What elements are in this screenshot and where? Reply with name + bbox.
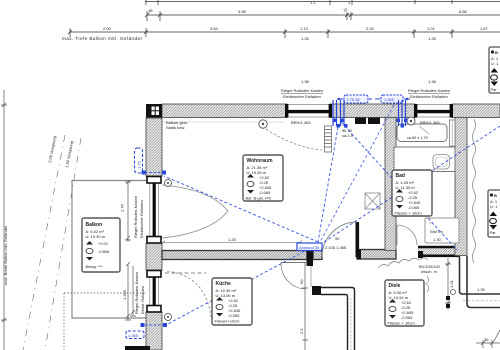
svg-text:1.30: 1.30 (477, 287, 486, 292)
hinge circle lower window (165, 314, 172, 321)
svg-text:Riegel Rolladen-Kasten: Riegel Rolladen-Kasten (134, 272, 139, 314)
wall right of Bad vertical (455, 118, 467, 256)
svg-text:BRH/1.365: BRH/1.365 (291, 120, 311, 125)
blue label bottom left (126, 331, 144, 339)
wall Wohnraum/Bad vertical (385, 118, 396, 251)
window1 swing dashed (266, 129, 322, 150)
hinge circle bad door (451, 290, 456, 295)
room box Diele (385, 280, 424, 326)
blue leader L3 (324, 126, 500, 242)
left exterior wall (mid segment between windows) (146, 243, 162, 270)
svg-text:2.24: 2.24 (366, 26, 375, 31)
svg-text:Elektrischer Rolladen: Elektrischer Rolladen (410, 94, 448, 99)
lower window dim lines (125, 262, 136, 320)
blue leader L4 (164, 176, 318, 242)
svg-text:Diele: Diele (389, 283, 401, 289)
room box Bad (392, 170, 432, 216)
balcony outline (72, 181, 148, 319)
left exterior wall (upper segment) (146, 118, 162, 176)
selected blue label B (window2) (375, 95, 410, 103)
svg-text:Elektrischer Rolladen: Elektrischer Rolladen (283, 94, 321, 99)
blue leader L6 (341, 122, 457, 250)
svg-text:1.365: 1.365 (384, 97, 394, 102)
hidden edge dashed in Kueche (165, 272, 206, 274)
svg-text:8.86: 8.86 (459, 9, 468, 14)
svg-text:90: 90 (299, 279, 304, 284)
svg-text:2.135 1.365: 2.135 1.365 (325, 245, 347, 250)
svg-text:2.5: 2.5 (299, 328, 304, 334)
room box Balkon (82, 218, 120, 272)
svg-text:U: 1: U: 1 (490, 204, 498, 209)
svg-text:B: B (495, 50, 498, 55)
slanted leader A with note (23, 135, 65, 350)
left exterior wall (lower segment) (146, 312, 162, 350)
french door arcs at balcony door (162, 185, 228, 238)
blue selected sill line upper (142, 171, 167, 175)
blue grips window1 (333, 119, 348, 128)
slanted leader B with note (45, 138, 81, 350)
svg-text:-0.065: -0.065 (259, 190, 271, 195)
svg-text:1.365: 1.365 (122, 289, 127, 300)
svg-text:misch. m: misch. m (421, 269, 438, 274)
left page dimension line (1, 90, 7, 350)
hinge circle balcony door (165, 180, 172, 187)
blue selected dim label (hub) (297, 243, 322, 251)
svg-text:+0.01: +0.01 (98, 241, 109, 246)
shaft square with X (365, 193, 380, 209)
blue leader L2 (320, 105, 394, 242)
blue selected verticals window2 (399, 100, 406, 126)
svg-text:Riegel Rolladen-Kasten: Riegel Rolladen-Kasten (281, 88, 323, 93)
svg-text:max. Tiefe Balkon inkl. Geländ: max. Tiefe Balkon inkl. Geländer (62, 36, 143, 41)
partial room box right edge top (489, 47, 500, 93)
Rollladen note window1 (281, 88, 323, 99)
blue leader L1 (318, 127, 338, 242)
top exterior wall (mid segment) (330, 104, 415, 118)
interior wall Wohnraum/Diele (left part) (357, 250, 396, 260)
entry wall L (dark double) (312, 286, 355, 350)
svg-text:4.96: 4.96 (238, 9, 247, 14)
svg-text:1.38: 1.38 (301, 79, 310, 84)
blue selected verticals window1 (333, 100, 344, 126)
svg-text:1.365: 1.365 (128, 333, 139, 338)
blue vertical grip element on left wall (135, 148, 143, 173)
top exterior wall (right segment) (452, 104, 500, 118)
top exterior wall (left segment) (162, 104, 287, 118)
dashed swing lower window (167, 271, 211, 317)
kueche/diele partition thin wall (304, 263, 306, 350)
svg-text:Fliesen + 10cm: Fliesen + 10cm (395, 211, 423, 216)
svg-text:-0.065: -0.065 (228, 313, 240, 318)
svg-text:-0.065: -0.065 (408, 205, 420, 210)
svg-text:ca 60 x 1.75: ca 60 x 1.75 (407, 136, 428, 140)
blue selected sill line lower (141, 323, 168, 327)
interior wall Wohnraum/Kueche (162, 251, 307, 260)
svg-text:max. Breite Balkon inkl. Gelän: max. Breite Balkon inkl. Geländer (3, 225, 8, 285)
svg-text:1.25: 1.25 (228, 237, 237, 242)
dimension chain row0 (top edge, partly cut) (145, 0, 500, 5)
svg-text:3.64: 3.64 (210, 26, 219, 31)
svg-text:Fliesen + 10cm: Fliesen + 10cm (388, 321, 416, 326)
blue leader L5 (166, 244, 318, 325)
tub leader line (419, 126, 429, 134)
kueche door leaf (281, 262, 306, 264)
kueche door swing arc (281, 263, 306, 289)
svg-text:BRH/1.365: BRH/1.365 (420, 120, 440, 125)
svg-text:Abstand 36: Abstand 36 (299, 245, 320, 250)
svg-text:36: 36 (484, 337, 489, 342)
black band bottom left (125, 346, 150, 350)
washing machine (425, 218, 459, 243)
window W3 left wall (balcony french door) (147, 176, 162, 243)
balcony hidden edge dotted (64, 293, 146, 350)
corner column (black) (146, 104, 162, 118)
svg-text:Riegel Rolladen-Kasten: Riegel Rolladen-Kasten (408, 88, 450, 93)
svg-text:Bad: Bad (396, 173, 405, 179)
window W2 in top wall (414, 104, 453, 118)
door jamb kueche door (307, 250, 314, 266)
Rollladen note window2 (408, 88, 450, 99)
interior dim line 1.25 (161, 241, 302, 245)
svg-text:1.1: 1.1 (310, 0, 316, 5)
bottom right dim (476, 330, 500, 348)
svg-text:1.76 36: 1.76 36 (347, 97, 360, 102)
wall stub left of Diele door (313, 251, 322, 260)
svg-text:U: 1: U: 1 (491, 61, 499, 66)
svg-text:-0.896: -0.896 (98, 249, 110, 254)
partial room box right edge mid (488, 190, 500, 237)
svg-text:B: B (494, 193, 497, 198)
door Wohnraum-Diele swing arc (322, 222, 357, 257)
selected blue label A (window1) (337, 95, 372, 103)
svg-text:Elektrischer Rolladen: Elektrischer Rolladen (139, 200, 144, 238)
room box Wohnraum (243, 155, 283, 201)
radiator under window1 (325, 126, 332, 152)
svg-text:Wohnraum: Wohnraum (247, 158, 274, 164)
svg-text:Bel: B-gm.+Fb: Bel: B-gm.+Fb (246, 196, 272, 201)
svg-text:Elektr. Rolladen: Elektr. Rolladen (140, 286, 145, 314)
wavy partition line right (473, 119, 476, 263)
door to Bad swing arc (397, 225, 417, 245)
svg-text:90: 90 (335, 236, 340, 241)
hinge circle window1 (259, 120, 267, 128)
svg-text:1.26: 1.26 (428, 36, 437, 41)
balcony inner dim line 1.76 (125, 180, 131, 242)
svg-text:1.67: 1.67 (480, 26, 489, 31)
hinge circle window2 (407, 117, 415, 125)
window W4 left wall (lower) (147, 270, 162, 312)
svg-text:Par: Par (491, 87, 498, 92)
corridor wall lower right L (460, 256, 500, 308)
shower/vanity (394, 147, 455, 172)
svg-text:1.76: 1.76 (137, 160, 142, 169)
bathtub (397, 124, 447, 142)
svg-text:Wa/Tro: Wa/Tro (430, 229, 444, 234)
svg-text:-0.065: -0.065 (401, 315, 413, 320)
interior face line below top wall (163, 121, 285, 123)
door jamb small (357, 250, 362, 260)
svg-text:Belag: ***: Belag: *** (86, 264, 104, 269)
vertical dim right of diele (445, 258, 451, 310)
shaft black over kitchen wall (355, 118, 380, 125)
towel radiator right (450, 120, 456, 146)
room box Kueche (212, 278, 252, 325)
door Wohnraum-Diele leaf (356, 222, 360, 257)
blue grips window2 (397, 119, 408, 128)
note Balkon gem. Statik (166, 120, 188, 130)
svg-text:1.76: 1.76 (120, 203, 125, 212)
svg-text:1.26: 1.26 (301, 36, 310, 41)
svg-text:U: 10.30 m: U: 10.30 m (86, 234, 106, 239)
svg-text:Riegel Rolladen-Kasten: Riegel Rolladen-Kasten (133, 196, 138, 238)
dimension chain row1 y=15 (145, 11, 500, 21)
svg-text:Par: Par (490, 230, 497, 235)
svg-text:1.38: 1.38 (428, 79, 437, 84)
window W1 in top wall (Wohnraum balcony door) (285, 104, 332, 118)
svg-text:1.01: 1.01 (427, 26, 436, 31)
svg-text:1.13: 1.13 (300, 26, 309, 31)
dimension chain row2 y=32 (68, 28, 500, 38)
svg-text:Statik bzw.: Statik bzw. (166, 125, 185, 130)
svg-text:1.30: 1.30 (433, 237, 442, 242)
svg-text:2.00: 2.00 (103, 26, 112, 31)
svg-text:Balkon: Balkon (86, 222, 103, 228)
interior wall Bad/Diele (dark band) (418, 246, 460, 258)
svg-text:Fliesen+10cm: Fliesen+10cm (215, 319, 241, 324)
svg-text:1.01: 1.01 (449, 279, 454, 288)
wavy cloud above Diele (378, 258, 428, 268)
svg-text:Küche: Küche (216, 281, 232, 287)
